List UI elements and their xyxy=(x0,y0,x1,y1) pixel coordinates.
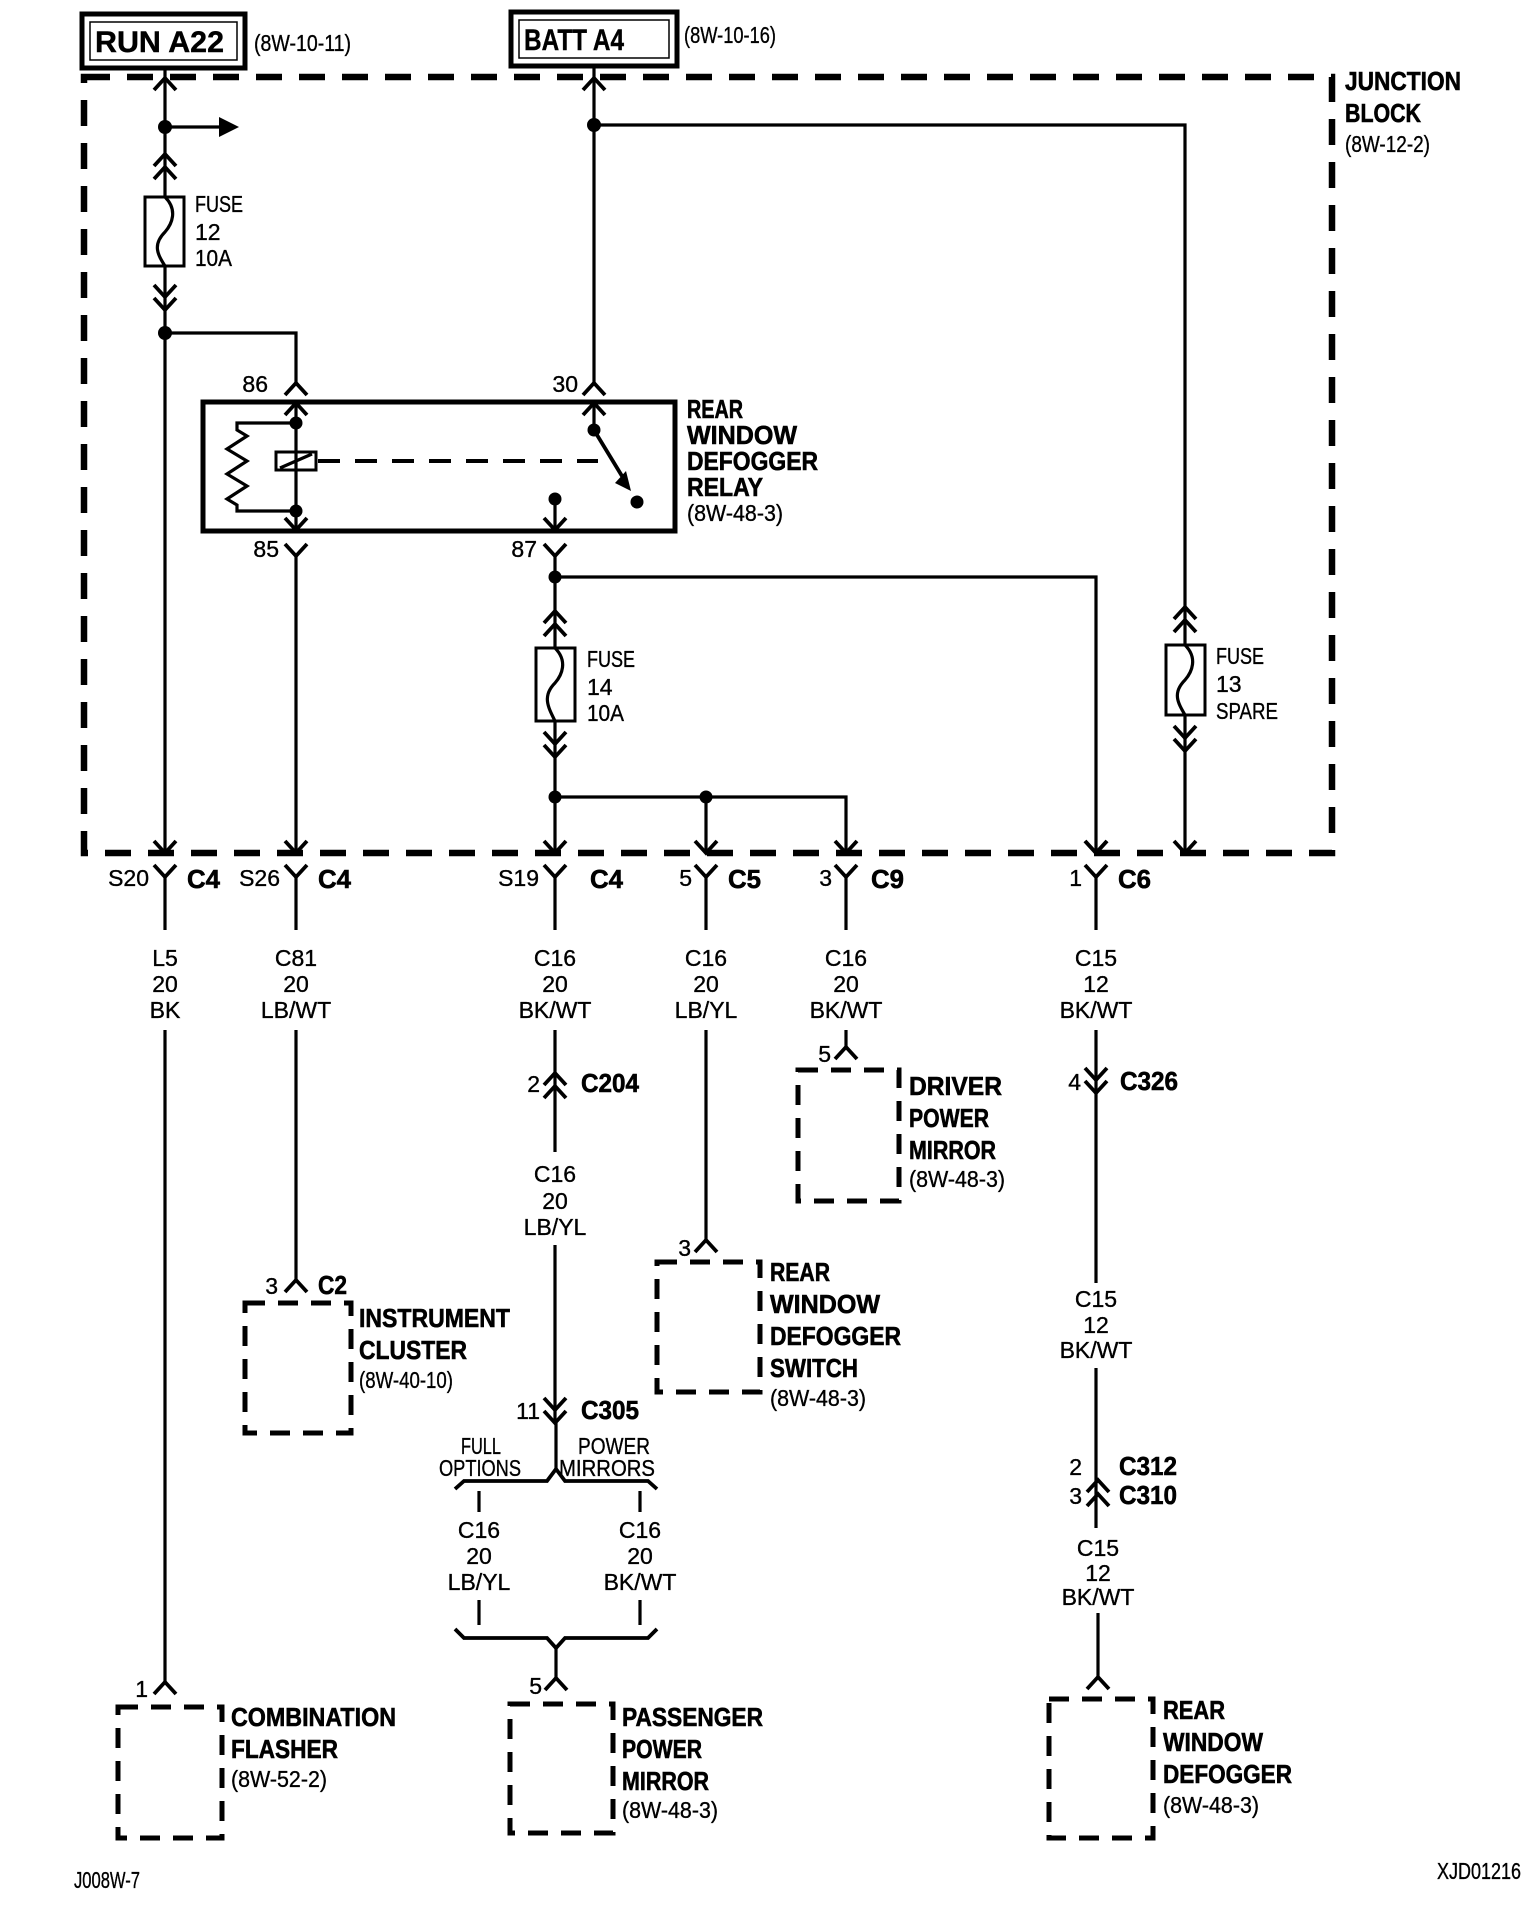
wire branch to C5 and C9 xyxy=(555,797,846,853)
component INSTRUMENT CLUSTER xyxy=(245,1303,351,1433)
svg-text:3: 3 xyxy=(819,865,832,891)
svg-text:INSTRUMENT: INSTRUMENT xyxy=(359,1303,510,1333)
svg-text:85: 85 xyxy=(253,536,279,562)
svg-text:BK/WT: BK/WT xyxy=(519,997,592,1023)
wire fuse 13 to block edge xyxy=(1174,715,1196,853)
svg-text:C4: C4 xyxy=(590,864,624,894)
svg-text:LB/YL: LB/YL xyxy=(675,997,738,1023)
svg-text:C15: C15 xyxy=(1075,945,1117,971)
svg-text:S26: S26 xyxy=(239,865,280,891)
svg-text:RELAY: RELAY xyxy=(687,472,763,502)
svg-text:5: 5 xyxy=(679,865,692,891)
svg-text:12: 12 xyxy=(1083,1312,1109,1338)
fuse F13 xyxy=(1166,645,1205,715)
wire S19 to C204 xyxy=(553,1030,556,1152)
svg-text:20: 20 xyxy=(693,971,719,997)
svg-text:5: 5 xyxy=(818,1041,831,1067)
wire 87 to fuse 14 xyxy=(553,556,556,648)
svg-text:C5: C5 xyxy=(728,864,761,894)
svg-text:COMBINATION: COMBINATION xyxy=(231,1702,396,1732)
svg-text:C9: C9 xyxy=(871,864,904,894)
wire 87 branch to C6 xyxy=(555,577,1107,853)
wire split brace xyxy=(455,1423,657,1489)
label REAR WINDOW DEFOGGER RELAY (8W-48-3) xyxy=(687,394,818,526)
component COMBINATION FLASHER xyxy=(118,1707,222,1838)
svg-text:REAR: REAR xyxy=(1163,1695,1225,1725)
svg-text:(8W-48-3): (8W-48-3) xyxy=(770,1385,866,1411)
svg-text:J008W-7: J008W-7 xyxy=(74,1867,140,1893)
svg-text:POWER: POWER xyxy=(909,1103,989,1133)
label COMBINATION FLASHER (8W-52-2) xyxy=(231,1702,396,1792)
wire fuse 14 to S19 xyxy=(553,721,556,853)
label FUSE 12 10A xyxy=(195,191,243,271)
svg-text:20: 20 xyxy=(542,1188,568,1214)
node C5 branch splice xyxy=(700,791,713,804)
svg-text:DEFOGGER: DEFOGGER xyxy=(1163,1759,1292,1789)
relay coil xyxy=(276,417,316,518)
node BATT splice xyxy=(587,118,601,132)
fuse F12 xyxy=(145,197,184,266)
svg-text:BK/WT: BK/WT xyxy=(810,997,883,1023)
svg-text:(8W-12-2): (8W-12-2) xyxy=(1345,131,1430,157)
connector pin 1 combination flasher xyxy=(135,1676,176,1702)
svg-text:(8W-52-2): (8W-52-2) xyxy=(231,1766,327,1792)
connector 11 C305 xyxy=(516,1395,639,1425)
label POWER MIRRORS xyxy=(559,1433,655,1481)
svg-text:S19: S19 xyxy=(498,865,539,891)
svg-text:C16: C16 xyxy=(825,945,867,971)
label REAR WINDOW DEFOGGER (8W-48-3) xyxy=(1163,1695,1292,1818)
wire BATT A4 to relay terminal 30 xyxy=(583,66,605,383)
node relay 87 splice xyxy=(549,571,562,584)
svg-text:2: 2 xyxy=(527,1071,540,1097)
svg-text:MIRRORS: MIRRORS xyxy=(559,1455,655,1481)
wire C326 to C312 xyxy=(1094,1093,1097,1528)
svg-text:C4: C4 xyxy=(318,864,352,894)
wire full options branch stub 2 xyxy=(477,1600,480,1625)
wire full options branch stub xyxy=(477,1491,480,1512)
svg-text:BK: BK xyxy=(150,997,181,1023)
wire BATT branch to fuse 13 xyxy=(594,125,1185,645)
wire C9 to driver mirror xyxy=(844,1030,847,1047)
wire merge brace xyxy=(455,1629,657,1678)
relay coil resistor xyxy=(227,423,296,511)
svg-text:OPTIONS: OPTIONS xyxy=(439,1455,521,1481)
svg-text:3: 3 xyxy=(678,1235,691,1261)
svg-text:CLUSTER: CLUSTER xyxy=(359,1335,467,1365)
svg-text:1: 1 xyxy=(1069,865,1082,891)
svg-text:C305: C305 xyxy=(581,1395,639,1425)
wire power mirrors branch stub 2 xyxy=(638,1600,641,1625)
connector 1 C6 xyxy=(1069,841,1151,930)
connector 5 C5 xyxy=(679,841,761,930)
connector pin 5 passenger mirror xyxy=(529,1673,567,1699)
svg-text:C4: C4 xyxy=(187,864,221,894)
svg-text:XJD01216: XJD01216 xyxy=(1437,1858,1521,1884)
wire S20 to combination flasher xyxy=(163,1030,166,1682)
svg-text:C6: C6 xyxy=(1118,864,1151,894)
svg-text:C15: C15 xyxy=(1077,1535,1119,1561)
svg-text:BLOCK: BLOCK xyxy=(1345,98,1421,128)
svg-text:12: 12 xyxy=(1083,971,1109,997)
svg-text:C16: C16 xyxy=(458,1517,500,1543)
svg-text:LB/YL: LB/YL xyxy=(448,1569,511,1595)
svg-text:C16: C16 xyxy=(685,945,727,971)
node RUN A22 feed xyxy=(82,14,245,68)
svg-text:BK/WT: BK/WT xyxy=(1060,1337,1133,1363)
label INSTRUMENT CLUSTER (8W-40-10) xyxy=(359,1303,510,1393)
svg-text:S20: S20 xyxy=(108,865,149,891)
svg-text:14: 14 xyxy=(587,674,613,700)
label DRIVER POWER MIRROR (8W-48-3) xyxy=(909,1071,1005,1192)
connector S19 C4 xyxy=(498,841,623,930)
wire power mirrors branch stub xyxy=(638,1491,641,1512)
svg-text:SWITCH: SWITCH xyxy=(770,1353,858,1383)
label REAR WINDOW DEFOGGER SWITCH (8W-48-3) xyxy=(770,1257,901,1411)
wire label C15 12 BK/WT (lower) xyxy=(1062,1535,1135,1610)
label FUSE 13 SPARE xyxy=(1216,643,1278,724)
svg-text:BK/WT: BK/WT xyxy=(1062,1584,1135,1610)
svg-text:13: 13 xyxy=(1216,671,1242,697)
svg-text:12: 12 xyxy=(195,219,221,245)
svg-text:4: 4 xyxy=(1068,1069,1081,1095)
relay linkage (dashed) xyxy=(318,459,598,463)
svg-text:20: 20 xyxy=(542,971,568,997)
svg-text:20: 20 xyxy=(833,971,859,997)
relay terminal 30 connector xyxy=(552,371,605,430)
svg-text:C326: C326 xyxy=(1120,1066,1178,1096)
svg-text:POWER: POWER xyxy=(622,1734,702,1764)
svg-text:C81: C81 xyxy=(275,945,317,971)
svg-text:30: 30 xyxy=(552,371,578,397)
svg-text:3: 3 xyxy=(1069,1483,1082,1509)
wire label C16 20 LB/YL (full options) xyxy=(448,1517,511,1595)
svg-text:10A: 10A xyxy=(587,700,625,726)
svg-text:12: 12 xyxy=(1085,1560,1111,1586)
connector 4 C326 xyxy=(1068,1066,1178,1096)
relay terminal 85 connector xyxy=(253,511,307,853)
fuse F14 xyxy=(536,648,575,721)
svg-text:FLASHER: FLASHER xyxy=(231,1734,338,1764)
svg-text:DEFOGGER: DEFOGGER xyxy=(770,1321,901,1351)
svg-text:20: 20 xyxy=(283,971,309,997)
connector chevrons below fuse 13 xyxy=(1174,726,1196,751)
wire label L5 20 BK xyxy=(150,945,181,1023)
connector S20 C4 xyxy=(108,841,220,930)
svg-text:5: 5 xyxy=(529,1673,542,1699)
connector chevrons above fuse 12 xyxy=(154,154,176,179)
wire C5 to defogger switch xyxy=(704,1030,707,1240)
svg-text:(8W-10-16): (8W-10-16) xyxy=(684,22,776,48)
svg-text:MIRROR: MIRROR xyxy=(622,1766,709,1796)
connector chevrons above fuse 13 xyxy=(1174,607,1196,632)
svg-text:20: 20 xyxy=(627,1543,653,1569)
svg-text:BK/WT: BK/WT xyxy=(1060,997,1133,1023)
wire fuse 12 to S20 xyxy=(163,266,166,853)
svg-text:(8W-48-3): (8W-48-3) xyxy=(622,1797,718,1823)
svg-text:(8W-48-3): (8W-48-3) xyxy=(909,1166,1005,1192)
svg-text:C2: C2 xyxy=(318,1270,347,1300)
svg-text:BK/WT: BK/WT xyxy=(604,1569,677,1595)
relay terminal 87 connector xyxy=(511,493,566,563)
svg-text:WINDOW: WINDOW xyxy=(1163,1727,1263,1757)
node splice on RUN feed xyxy=(158,120,172,134)
node splice to relay coil branch xyxy=(158,326,172,340)
connector 2 C204 xyxy=(527,1068,639,1098)
wire label C16 20 BK/WT (power mirrors) xyxy=(604,1517,677,1595)
svg-text:C312: C312 xyxy=(1119,1451,1177,1481)
node S19 branch splice xyxy=(549,791,562,804)
svg-text:WINDOW: WINDOW xyxy=(770,1289,880,1319)
label FUSE 14 10A xyxy=(587,646,635,726)
wire S26 to instrument cluster xyxy=(294,1030,297,1280)
svg-text:2: 2 xyxy=(1069,1454,1082,1480)
connector rear window defogger xyxy=(1087,1677,1109,1689)
connector chevrons below fuse 14 xyxy=(544,732,566,757)
svg-text:REAR: REAR xyxy=(770,1257,830,1287)
svg-text:20: 20 xyxy=(466,1543,492,1569)
connector S26 C4 xyxy=(239,841,351,930)
svg-text:L5: L5 xyxy=(152,945,178,971)
component REAR WINDOW DEFOGGER xyxy=(1049,1699,1153,1838)
label FULL OPTIONS xyxy=(439,1433,521,1481)
svg-text:LB/WT: LB/WT xyxy=(261,997,331,1023)
wire RUN A22 into junction block xyxy=(154,68,176,197)
wire off-page arrow xyxy=(165,117,239,137)
svg-text:FUSE: FUSE xyxy=(1216,643,1264,669)
svg-text:C15: C15 xyxy=(1075,1286,1117,1312)
svg-text:SPARE: SPARE xyxy=(1216,698,1278,724)
svg-text:C16: C16 xyxy=(619,1517,661,1543)
relay K1 REAR WINDOW DEFOGGER RELAY box xyxy=(203,402,675,531)
connector 3 C9 xyxy=(819,841,904,930)
svg-text:1: 1 xyxy=(135,1676,148,1702)
wire label C15 12 BK/WT (mid) xyxy=(1060,1286,1133,1363)
svg-text:C204: C204 xyxy=(581,1068,640,1098)
wire C204 to C305 xyxy=(553,1245,556,1423)
svg-text:C310: C310 xyxy=(1119,1480,1177,1510)
svg-text:BATT A4: BATT A4 xyxy=(524,24,624,57)
svg-text:DRIVER: DRIVER xyxy=(909,1071,1002,1101)
svg-text:(8W-48-3): (8W-48-3) xyxy=(687,500,783,526)
node BATT A4 feed xyxy=(511,12,677,66)
svg-text:MIRROR: MIRROR xyxy=(909,1135,996,1165)
wire branch to relay terminal 86 xyxy=(165,333,296,383)
svg-text:(8W-10-11): (8W-10-11) xyxy=(254,30,351,56)
wire C6 to C326 xyxy=(1094,1030,1097,1093)
svg-text:C16: C16 xyxy=(534,945,576,971)
wire label C15 12 BK/WT (C6) xyxy=(1060,945,1133,1023)
label PASSENGER POWER MIRROR (8W-48-3) xyxy=(622,1702,763,1823)
wire label C16 20 BK/WT (C9) xyxy=(810,945,883,1023)
svg-text:87: 87 xyxy=(511,536,537,562)
wire C310 to rear window defogger xyxy=(1096,1613,1099,1677)
svg-text:RUN A22: RUN A22 xyxy=(95,26,224,59)
wire label C81 20 LB/WT xyxy=(261,945,331,1023)
svg-text:(8W-40-10): (8W-40-10) xyxy=(359,1367,453,1393)
connector 2 C312 / 3 C310 xyxy=(1069,1451,1177,1510)
junction block boundary xyxy=(84,77,1332,853)
component REAR WINDOW DEFOGGER SWITCH xyxy=(657,1262,760,1392)
component PASSENGER POWER MIRROR xyxy=(510,1704,613,1833)
svg-text:LB/YL: LB/YL xyxy=(524,1214,587,1240)
svg-text:10A: 10A xyxy=(195,245,233,271)
svg-text:3: 3 xyxy=(265,1273,278,1299)
connector pin 3 defogger switch xyxy=(678,1235,717,1261)
svg-text:20: 20 xyxy=(152,971,178,997)
relay switch contact xyxy=(588,424,644,509)
wire label C16 20 BK/WT (S19) xyxy=(519,945,592,1023)
svg-text:C16: C16 xyxy=(534,1161,576,1187)
component DRIVER POWER MIRROR xyxy=(798,1070,899,1201)
connector chevrons above fuse 14 xyxy=(544,611,566,636)
svg-text:JUNCTION: JUNCTION xyxy=(1345,66,1461,96)
wire label C16 20 LB/YL (C204) xyxy=(524,1161,587,1240)
wire label C16 20 LB/YL (C5) xyxy=(675,945,738,1023)
connector pin 5 driver mirror xyxy=(818,1041,857,1067)
label JUNCTION BLOCK (8W-12-2) xyxy=(1345,66,1461,157)
svg-text:(8W-48-3): (8W-48-3) xyxy=(1163,1792,1259,1818)
connector 3 C2 xyxy=(265,1270,347,1300)
svg-text:PASSENGER: PASSENGER xyxy=(622,1702,763,1732)
connector chevrons below fuse 12 xyxy=(154,285,176,310)
svg-text:FUSE: FUSE xyxy=(195,191,243,217)
svg-text:11: 11 xyxy=(516,1398,540,1424)
svg-text:86: 86 xyxy=(242,371,268,397)
svg-text:FUSE: FUSE xyxy=(587,646,635,672)
relay terminal 86 connector xyxy=(242,371,307,423)
